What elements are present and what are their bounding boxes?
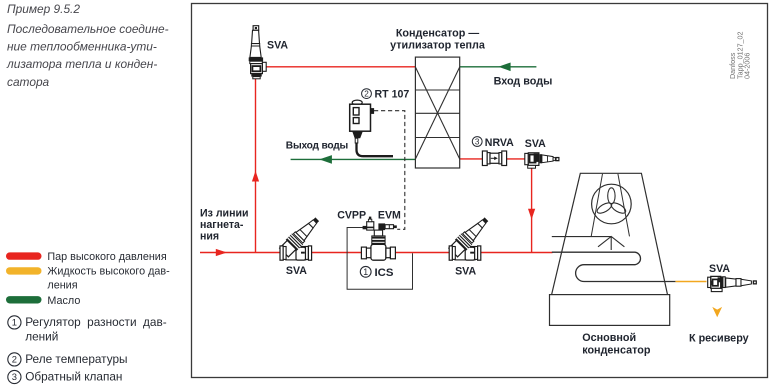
diagram border frame	[192, 4, 768, 378]
svg-text:2: 2	[364, 90, 369, 99]
svg-text:нагнета-: нагнета-	[200, 219, 244, 231]
pilot valve CVPP	[363, 217, 374, 230]
green arrow water inlet	[498, 63, 510, 72]
yellow arrow to receiver	[712, 307, 722, 317]
svg-text:SVA: SVA	[709, 263, 730, 275]
svg-text:ления: ления	[47, 280, 77, 292]
wire: red top feed to heat exchanger	[266, 66, 416, 68]
svg-text:2: 2	[12, 354, 17, 365]
condenser housing trapezoid	[552, 173, 668, 294]
svg-text:Конденсатор —: Конденсатор —	[396, 27, 480, 39]
label circled 1 ICS	[360, 266, 371, 277]
servo valve ICS	[361, 230, 395, 260]
svg-text:SVA: SVA	[267, 39, 288, 51]
label circled 3 NRVA	[472, 137, 482, 147]
svg-text:утилизатор тепла: утилизатор тепла	[390, 39, 486, 51]
svg-text:04-2006: 04-2006	[743, 53, 752, 79]
svg-text:Жидкость высокого дав-: Жидкость высокого дав-	[47, 266, 170, 278]
svg-text:SVA: SVA	[286, 265, 307, 277]
svg-text:Выход воды: Выход воды	[286, 140, 348, 151]
svg-text:лизатора тепла и конден-: лизатора тепла и конден-	[6, 57, 157, 71]
svg-text:3: 3	[12, 371, 17, 382]
svg-text:Основной: Основной	[582, 332, 636, 344]
svg-text:3: 3	[475, 137, 480, 146]
svg-text:Вход воды: Вход воды	[494, 76, 553, 88]
stop valve SVA a (vertical, top left)	[249, 26, 266, 79]
svg-text:CVPP: CVPP	[337, 210, 366, 222]
svg-text:ICS: ICS	[375, 267, 394, 279]
note 1 circle	[8, 316, 21, 329]
stop valve SVA c (angled, on main line right)	[449, 214, 492, 260]
svg-text:конденсатор: конденсатор	[582, 344, 651, 356]
RT107 capillary tube to water line	[357, 143, 394, 156]
condenser inlet header line	[552, 236, 611, 238]
svg-text:Последовательное соедине-: Последовательное соедине-	[7, 22, 169, 36]
svg-text:Пар высокого давления: Пар высокого давления	[47, 251, 166, 263]
legend swatch: yellow (liquid)	[6, 267, 42, 274]
stop valve SVA e (horizontal, to receiver)	[708, 276, 757, 291]
note 3 circle	[8, 370, 21, 383]
svg-text:EVM: EVM	[378, 210, 401, 222]
dashed pilot line RT107 to EVM	[374, 111, 405, 230]
svg-text:Пример 9.5.2: Пример 9.5.2	[7, 2, 80, 16]
wire: green water inlet	[460, 66, 537, 68]
svg-text:1: 1	[363, 267, 368, 277]
heat exchanger body	[415, 57, 459, 168]
check valve NRVA	[482, 151, 506, 166]
svg-text:ние теплообменника-ути-: ние теплообменника-ути-	[7, 40, 157, 54]
stop valve SVA d (horizontal, after NRVA)	[525, 153, 560, 168]
svg-text:SVA: SVA	[525, 138, 546, 150]
legend swatch: red (hot gas)	[6, 252, 42, 259]
pilot valve EVM	[378, 223, 396, 230]
svg-text:Из линии: Из линии	[200, 207, 249, 219]
wire: yellow liquid line to receiver valve	[675, 281, 706, 283]
svg-text:сатора: сатора	[7, 75, 50, 89]
red flow arrow up on riser	[252, 171, 259, 182]
legend swatch: green (oil)	[6, 296, 42, 303]
wire: red from heat exchanger to NRVA and SVA d	[460, 158, 527, 160]
svg-text:Регулятор разности дав-: Регулятор разности дав-	[25, 315, 167, 329]
svg-text:SVA: SVA	[455, 265, 476, 277]
svg-text:Реле температуры: Реле температуры	[25, 352, 127, 366]
green arrow water outlet	[319, 155, 332, 164]
svg-text:1: 1	[12, 317, 17, 328]
svg-text:NRVA: NRVA	[485, 137, 514, 149]
svg-text:лений: лений	[25, 330, 58, 344]
red flow arrow on main line	[216, 249, 227, 256]
red flow arrow down on drop	[528, 209, 535, 220]
thermostat RT107	[350, 100, 374, 143]
inlet up arrow	[598, 236, 624, 250]
condenser base	[550, 295, 670, 326]
svg-text:Масло: Масло	[47, 295, 80, 307]
stop valve SVA b (angled, on main line left)	[280, 214, 323, 260]
label circled 2 RT 107	[362, 89, 372, 99]
fan shroud lines	[591, 174, 602, 237]
pilot line box of ICS	[347, 228, 412, 290]
svg-text:RT 107: RT 107	[375, 89, 410, 101]
wire: red riser to SVA a	[255, 75, 257, 253]
svg-text:Обратный клапан: Обратный клапан	[25, 370, 122, 384]
svg-text:К ресиверу: К ресиверу	[689, 333, 749, 345]
condenser serpentine coil	[552, 252, 676, 281]
wire: green water outlet	[291, 158, 416, 160]
wire: main red discharge line	[200, 252, 553, 254]
note 2 circle	[8, 353, 21, 366]
fan propeller	[596, 188, 628, 216]
svg-text:ния: ния	[200, 231, 219, 243]
wire: red drop from SVA d to main line	[531, 166, 533, 253]
fan circle	[592, 184, 632, 224]
